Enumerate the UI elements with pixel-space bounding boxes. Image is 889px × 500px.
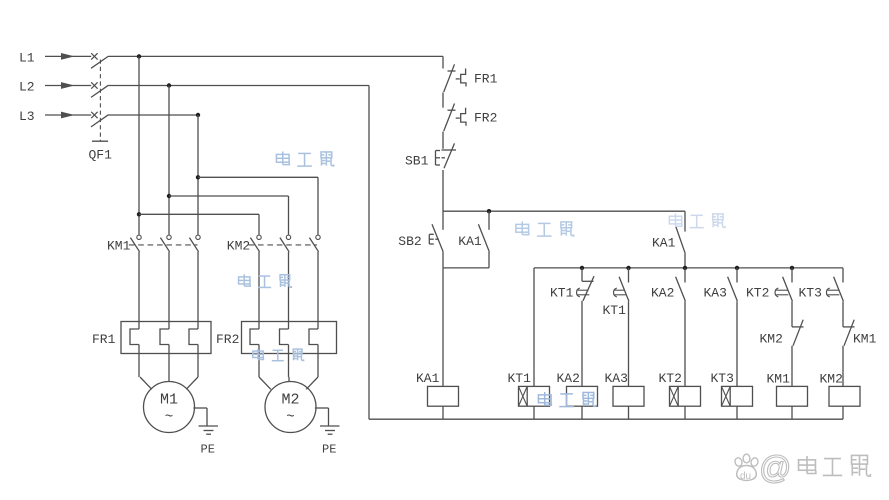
- svg-text:KT2: KT2: [659, 371, 682, 386]
- svg-text:QF1: QF1: [89, 148, 113, 163]
- svg-text:KT1: KT1: [508, 371, 532, 386]
- svg-text:KT1: KT1: [550, 285, 574, 300]
- svg-text:KA3: KA3: [704, 285, 727, 300]
- svg-text:KA1: KA1: [458, 234, 482, 249]
- svg-text:FR2: FR2: [216, 332, 239, 347]
- svg-text:L1: L1: [19, 50, 35, 65]
- svg-text:FR1: FR1: [92, 332, 116, 347]
- svg-text:L3: L3: [19, 109, 35, 124]
- svg-text:KT3: KT3: [711, 371, 734, 386]
- svg-text:@: @: [759, 450, 791, 486]
- svg-text:PE: PE: [201, 443, 215, 457]
- svg-text:KM2: KM2: [227, 239, 250, 254]
- svg-text:KA1: KA1: [652, 235, 676, 250]
- svg-text:M1: M1: [160, 392, 178, 409]
- svg-text:du: du: [740, 471, 751, 482]
- svg-text:FR2: FR2: [474, 111, 497, 126]
- svg-text:KM1: KM1: [107, 239, 131, 254]
- svg-text:M2: M2: [281, 392, 299, 409]
- svg-text:KA2: KA2: [557, 371, 580, 386]
- svg-text:~: ~: [286, 410, 294, 426]
- svg-text:KM1: KM1: [767, 371, 791, 386]
- svg-text:SB1: SB1: [405, 153, 429, 168]
- svg-text:KT3: KT3: [799, 285, 822, 300]
- svg-text:KT2: KT2: [746, 285, 769, 300]
- svg-text:KA3: KA3: [605, 371, 628, 386]
- svg-text:~: ~: [165, 410, 173, 426]
- svg-text:SB2: SB2: [398, 234, 421, 249]
- svg-text:KM2: KM2: [820, 371, 843, 386]
- svg-text:KT1: KT1: [603, 303, 627, 318]
- svg-text:KM1: KM1: [853, 332, 877, 347]
- svg-text:KA1: KA1: [416, 371, 440, 386]
- svg-text:KM2: KM2: [760, 332, 783, 347]
- svg-text:KA2: KA2: [651, 285, 674, 300]
- svg-text:PE: PE: [322, 443, 336, 457]
- svg-text:L2: L2: [19, 79, 35, 94]
- svg-text:FR1: FR1: [474, 71, 498, 86]
